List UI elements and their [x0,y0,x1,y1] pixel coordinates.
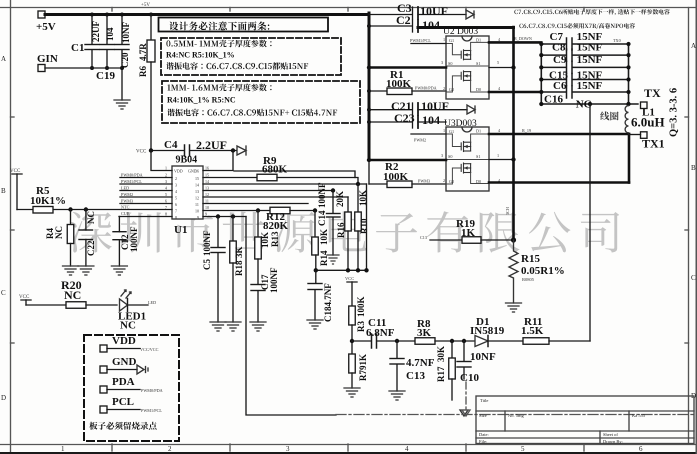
svg-text:NC: NC [86,211,96,224]
svg-text:R791K: R791K [358,354,368,381]
svg-text:10NF: 10NF [470,351,496,363]
svg-text:R17: R17 [436,366,446,382]
svg-text:1: 1 [165,166,167,171]
svg-text:VCC: VCC [136,150,147,155]
svg-text:U2 D003: U2 D003 [443,27,478,37]
svg-text:100K: 100K [386,78,412,90]
wire pin10 row with R12 [203,210,270,212]
svg-text:10K: 10K [260,232,270,248]
svg-text:D0: D0 [476,87,481,92]
svg-text:5: 5 [521,445,525,453]
svg-text:R16: R16 [336,222,346,238]
wire U1 pin16 to C4 [203,151,233,171]
svg-text:20K: 20K [335,191,345,207]
svg-text:Size: Size [479,413,487,418]
resistor R2 100K [367,158,371,162]
svg-text:2: 2 [175,176,177,181]
wire thick vertical right of U3 [628,134,631,183]
svg-text:R_DOWN: R_DOWN [514,36,532,41]
svg-text:100K: 100K [383,171,409,183]
transistor Q3 in U3 [461,142,470,152]
svg-text:4.7NF: 4.7NF [406,357,435,369]
capacitor C17 100NF [251,284,265,286]
svg-text:C16: C16 [544,94,563,106]
wire fold dash-dot line [336,414,694,416]
note text top right line1 [514,9,669,15]
svg-text:104: 104 [422,113,440,127]
svg-text:1: 1 [443,128,445,133]
svg-text:2: 2 [165,173,167,178]
wire pin14 row to R10 [203,183,367,185]
capacitor C18 4.7NF [315,270,317,283]
svg-text:4.7R: 4.7R [138,43,148,61]
connector PDA pad [100,386,107,393]
ground C22 [78,266,94,275]
svg-text:A: A [1,55,6,63]
svg-text:10UF: 10UF [421,99,449,113]
svg-text:R0805: R0805 [522,277,535,282]
svg-text:D1: D1 [476,129,481,134]
svg-text:R18: R18 [234,260,244,276]
svg-text:PWM3: PWM3 [418,179,430,184]
capacitor C11 6.8NF [371,334,373,348]
svg-text:9B04: 9B04 [176,155,198,166]
svg-text:10K1%: 10K1% [30,195,66,207]
svg-text:PWM0/PDA: PWM0/PDA [415,86,437,91]
svg-text:U3D003: U3D003 [444,119,477,129]
wire U2 G1 PWM1/PCL [411,43,446,45]
svg-text:C184.7NF: C184.7NF [323,283,333,322]
ground arrow C10 [460,410,468,416]
capacitor C6 15NF [539,80,630,98]
power arrow C3 [466,10,474,19]
svg-text:C8: C8 [552,42,566,54]
svg-text:7: 7 [175,209,177,214]
svg-text:S0: S0 [448,61,452,66]
wire +5V bus top [45,13,369,16]
svg-text:3: 3 [175,183,177,188]
transistor Q4 in U3 [461,163,470,173]
note box dashed 2 [162,81,360,123]
svg-text:No. 5mg: No. 5mg [508,413,525,418]
capacitor C19 104 [106,15,108,45]
svg-text:PWM1/PCL: PWM1/PCL [121,179,142,184]
svg-text:Drawn By:: Drawn By: [603,439,623,444]
op-amp U1 9B04 MCU [172,166,203,219]
resistor R11 1.5K [523,338,549,345]
svg-text:6.8NF: 6.8NF [366,327,395,339]
svg-text:8: 8 [175,215,177,220]
capacitor C1 22UF [91,15,93,45]
resistor R10 10K [357,184,359,212]
ground R18 [225,322,241,331]
resistor R4 NC [68,207,72,211]
svg-text:TX1: TX1 [642,137,665,151]
svg-text:NC: NC [54,226,64,239]
power arrow C4 [237,146,246,155]
svg-text:C19: C19 [96,70,115,82]
svg-text:LED: LED [148,300,156,305]
svg-text:VCC/VCC: VCC/VCC [140,347,159,352]
svg-text:D: D [1,394,6,402]
svg-text:104: 104 [105,27,115,41]
wire main bottom row [350,339,354,343]
svg-text:VCC: VCC [19,295,30,300]
capacitor C21 10UF [367,108,371,112]
svg-text:15: 15 [195,176,199,181]
wire U1 pin8 CUE [119,216,172,218]
ground C12 [111,266,127,275]
svg-text:PWM1/PCL: PWM1/PCL [141,408,162,413]
connector GND pad [100,366,107,373]
resistor R7 91K [351,341,353,354]
wire U1 pin7 NTC [52,209,172,211]
svg-text:8: 8 [165,212,167,217]
svg-text:15NF: 15NF [577,42,603,54]
ground R15 [506,303,522,312]
capacitor C14 100NF [332,191,334,214]
svg-text:G2: G2 [449,179,454,184]
wire U3 D0 thick [489,181,629,184]
capacitor C20 10NF [121,15,123,45]
svg-text:Q=3. 3-3. 6: Q=3. 3-3. 6 [669,88,680,137]
svg-text:100NF: 100NF [129,226,139,252]
svg-text:5: 5 [175,196,177,201]
capacitor C8 15NF [539,42,630,62]
capacitor C3 10UF [369,14,412,16]
resistor R1 100K [367,89,371,93]
svg-text:+5V: +5V [141,3,150,8]
wire VCC row to C4 [150,150,184,152]
resistor R5 10K1% [17,209,33,211]
wire U2 D0 thick [489,91,541,94]
svg-text:D1: D1 [476,38,481,43]
resistor R3 100K [349,306,356,325]
svg-text:30K: 30K [436,346,446,362]
op-amp U2 D003 driver [443,27,489,99]
svg-text:PWM0/PDA: PWM0/PDA [121,173,143,178]
svg-text:C6: C6 [553,80,567,92]
resistor R12 820K [270,207,290,214]
svg-text:10K: 10K [319,229,329,245]
svg-text:6: 6 [175,202,177,207]
svg-text:C13: C13 [406,370,425,382]
wire U1 pin5 PWM2 [120,196,172,198]
svg-text:C13: C13 [420,235,427,240]
diode D1 IN5819 [475,336,488,347]
resistor R20 NC [26,304,66,306]
svg-text:S1: S1 [476,154,480,159]
ground C13 [389,391,405,400]
svg-text:PWM1/PCL: PWM1/PCL [410,38,431,43]
svg-text:D0: D0 [476,179,481,184]
svg-text:6: 6 [639,445,643,453]
wire U1 pin1 VDD [151,151,172,171]
connector VDD pad [100,345,107,352]
transistor Q1 in U2 [461,50,470,60]
capacitor C2 104 [367,24,371,28]
svg-text:Sheet of: Sheet of [603,432,618,437]
svg-text:104: 104 [422,18,440,32]
connector TX [641,102,648,109]
wire U1 pin6 PWM3 [120,203,172,205]
svg-text:1.5K: 1.5K [521,325,544,337]
wire pin11 row stub [203,203,308,205]
wire R11 up to C16 row [589,105,591,342]
wire U2 internals [446,42,489,92]
wire thick vertical x513 [512,27,515,240]
resistor R15 0.05R 1% zigzag [509,240,518,303]
power arrow C21 [467,105,475,114]
capacitor C5 100NF [217,217,219,248]
svg-text:NTC: NTC [121,205,130,210]
connector GIN [38,65,45,72]
svg-text:B: B [1,187,6,195]
svg-text:C5: C5 [202,259,212,270]
resistor R13 10K [257,211,259,238]
capacitor C10 10NF [463,341,465,361]
svg-text:C2: C2 [396,13,411,27]
svg-text:VCC: VCC [10,169,21,174]
svg-text:File:: File: [479,439,487,444]
svg-text:VCC: VCC [345,276,354,281]
wire U3 S0 thick [369,159,446,162]
svg-text:R13: R13 [270,231,280,247]
ground C17 [250,322,266,331]
svg-text:1: 1 [497,153,499,158]
wire long vertical to bottom [246,217,336,416]
wire U3 D1 thick [489,133,629,136]
svg-text:3: 3 [286,445,290,453]
svg-text:2: 2 [443,178,445,183]
svg-text:6: 6 [165,199,167,204]
op-amp U3 D003 driver [444,119,489,191]
svg-text:R_19: R_19 [522,128,531,133]
connector +5V [38,11,45,18]
svg-text:3K: 3K [417,327,432,339]
svg-text:C22: C22 [86,240,96,256]
resistor R17 30K [451,341,453,358]
ground C5 [210,322,226,331]
wire U1 pin4 LED [120,190,172,192]
svg-text:3: 3 [441,153,443,158]
svg-text:NC: NC [576,99,592,111]
wire +5V bus vertical [368,13,371,160]
wire pin13 row to C14 [203,190,333,192]
svg-text:C1: C1 [71,42,84,54]
transistor Q2 in U2 [461,71,470,81]
note box dashed 1 [161,38,341,75]
svg-text:S1: S1 [476,61,480,66]
svg-text:G2: G2 [449,87,454,92]
svg-text:9: 9 [197,215,199,220]
svg-text:GND: GND [112,356,137,368]
LED LED1 [120,299,128,311]
capacitor C16 NC [539,94,638,111]
svg-text:R14: R14 [319,250,329,266]
programming pads dashed box [84,335,179,441]
svg-text:Title: Title [480,398,488,403]
ground R7 [344,388,360,397]
svg-text:PCL: PCL [112,396,134,408]
ground arrow GND pad [137,365,148,374]
connector PCL pad [100,406,107,413]
svg-text:100NF: 100NF [317,182,327,208]
svg-text:C4: C4 [164,139,178,151]
svg-text:A: A [691,42,696,50]
note box solid title [159,18,329,32]
resistor R14 10K [313,208,317,212]
svg-text:12: 12 [195,196,199,201]
svg-text:1: 1 [61,445,65,453]
svg-text:16: 16 [205,166,209,171]
svg-text:14: 14 [195,183,199,188]
svg-text:C10: C10 [460,372,479,384]
wire U3 internals [446,134,489,184]
capacitor C15 15NF [539,70,630,86]
svg-text:TX0: TX0 [613,38,621,43]
capacitor C12 100NF [118,217,120,232]
resistor R16 20K [347,197,349,212]
wire U2 D1 thick to cap bank [489,41,541,44]
ground R4 [63,266,79,275]
svg-text:R10: R10 [359,218,369,234]
svg-text:11: 11 [195,202,199,207]
svg-text:C14: C14 [317,210,327,226]
wire GIN row [45,67,122,69]
svg-text:22UF: 22UF [91,21,101,42]
svg-text:Ka 555: Ka 555 [632,413,646,418]
wire pin9 row [203,216,246,218]
capacitor C13 4.7NF [396,341,398,358]
wire U3 S1 [489,159,514,161]
svg-text:+5V: +5V [36,21,56,33]
svg-text:PWM0/PDA: PWM0/PDA [141,388,163,393]
svg-text:12: 12 [205,192,209,197]
svg-text:R3: R3 [356,321,366,332]
title block [476,396,694,444]
capacitor C9 15NF [539,54,630,73]
svg-text:15NF: 15NF [577,80,603,92]
svg-text:C: C [691,274,696,282]
svg-text:U1: U1 [174,224,187,236]
svg-text:10: 10 [205,205,209,210]
node coil label [600,111,618,120]
svg-text:1K: 1K [461,227,476,239]
svg-text:2: 2 [443,86,445,91]
wire U1 pin3 PWM1/PCL [120,183,172,185]
svg-text:6.0uH: 6.0uH [631,115,665,130]
svg-text:VDD: VDD [112,335,136,347]
wire cap bank right bus [628,44,630,104]
svg-text:C20: C20 [120,52,130,68]
ground below C20 [114,100,130,109]
svg-text:15: 15 [205,173,209,178]
svg-text:3: 3 [165,179,167,184]
svg-text:4: 4 [405,445,409,453]
resistor R18 3K [232,217,234,242]
inductor L1 6.0uH [625,106,628,133]
svg-text:820K: 820K [263,220,289,232]
svg-text:GIN: GIN [37,53,58,65]
svg-text:10UF: 10UF [420,4,448,18]
wire bottom row mid [316,269,367,271]
svg-text:PDA: PDA [112,376,135,388]
capacitor C7 15NF [539,31,630,50]
svg-text:CUE: CUE [121,211,130,216]
wire thick C2 row to x513 [418,26,514,29]
ground C18 [307,320,323,329]
svg-text:S0: S0 [448,154,452,159]
svg-text:13: 13 [195,189,199,194]
watermark company name [70,211,620,252]
svg-text:R15: R15 [521,253,540,265]
svg-text:G1: G1 [449,129,454,134]
svg-text:680K: 680K [262,164,288,176]
svg-text:C: C [1,289,6,297]
svg-text:15NF: 15NF [577,54,603,66]
svg-text:2.2UF: 2.2UF [196,138,227,152]
svg-text:C23: C23 [394,111,415,125]
svg-text:3CH: 3CH [505,207,510,215]
wire U2 S1 [489,67,514,69]
note burn points label [89,422,156,430]
svg-text:5: 5 [165,192,167,197]
resistor R6 4.7R [149,13,153,17]
svg-text:PWM2: PWM2 [414,138,426,143]
capacitor C22 NC [84,207,88,211]
svg-text:PWM2: PWM2 [121,192,133,197]
svg-text:9: 9 [205,212,207,217]
svg-text:11: 11 [205,199,209,204]
svg-text:10NF: 10NF [121,22,131,43]
wire pin12 row to R16 [203,196,348,198]
svg-text:Date:: Date: [479,432,489,437]
svg-text:3K: 3K [234,246,244,258]
wire U3 G1 PWM2 [411,133,446,135]
svg-text:R4:10K_1% R5:NC: R4:10K_1% R5:NC [167,96,236,105]
svg-text:IN5819: IN5819 [470,325,505,337]
wire U2 S0 thick [369,66,446,69]
svg-text:100K: 100K [356,296,366,317]
capacitor C23 104 [367,120,371,124]
svg-text:3: 3 [441,60,443,65]
svg-text:VDD: VDD [174,169,183,174]
svg-text:100NF: 100NF [202,230,212,256]
svg-text:G1: G1 [449,38,454,43]
svg-text:13: 13 [205,186,209,191]
svg-text:16: 16 [195,169,199,174]
wire U1 pin2 PWM0/PDA [120,177,172,179]
svg-text:R6: R6 [138,66,148,77]
svg-text:C9: C9 [553,54,567,66]
svg-text:NC: NC [64,288,81,302]
svg-text:10: 10 [195,209,199,214]
svg-text:LED: LED [121,186,129,191]
svg-text:2: 2 [168,445,172,453]
note text top right line2 [519,23,635,29]
svg-text:14: 14 [205,179,209,184]
svg-text:100NF: 100NF [269,267,279,293]
wire cap bank left bus [540,42,542,104]
connector TX1 [641,132,648,139]
svg-text:B: B [691,164,696,172]
svg-text:R4:NC R5:10K_1%: R4:NC R5:10K_1% [166,51,235,60]
resistor R9 680K on pin15 row [203,177,257,179]
resistor R8 3K [415,338,435,345]
svg-text:0.05R1%: 0.05R1% [521,265,565,277]
svg-text:PWM3: PWM3 [121,199,133,204]
